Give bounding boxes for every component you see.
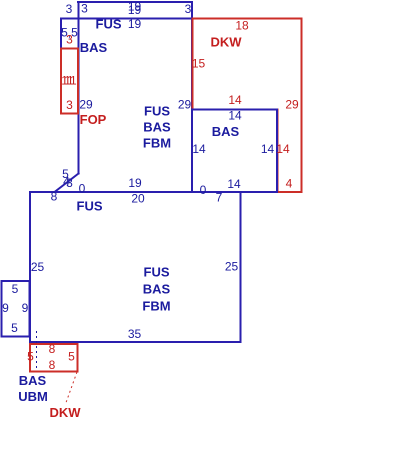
svg-text:18: 18 [235,19,249,33]
FOP porch red rectangle [61,49,78,114]
svg-text:20: 20 [131,192,145,206]
svg-text:BAS: BAS [80,40,108,55]
svg-text:5: 5 [68,350,75,364]
leader dashed blue vertical [36,331,38,370]
svg-text:FUS: FUS [144,265,170,280]
svg-text:14: 14 [192,142,206,156]
svg-text:8: 8 [51,190,58,204]
svg-text:FUS: FUS [144,103,170,118]
svg-text:0: 0 [200,183,207,197]
svg-text:19: 19 [128,17,142,31]
wire: main horizontal y=192 [30,191,277,193]
bump-out small rectangle left side [2,281,30,337]
svg-text:4: 4 [286,177,293,191]
svg-text:25: 25 [31,260,45,274]
wire: FUS main left vertical [78,2,80,174]
svg-text:0: 0 [79,182,86,196]
svg-text:3: 3 [185,2,192,16]
svg-text:3: 3 [66,2,73,16]
svg-text:DKW: DKW [210,34,242,49]
svg-text:FUS: FUS [77,198,103,213]
svg-text:14: 14 [261,142,275,156]
svg-text:19: 19 [128,3,142,17]
svg-text:14: 14 [227,177,241,191]
DKW lower red rectangle [30,344,78,372]
leader dashed red to DKW label [66,372,78,404]
svg-text:9: 9 [22,301,29,315]
svg-text:14: 14 [228,109,242,123]
svg-text:3: 3 [66,33,73,47]
svg-text:3: 3 [66,98,73,112]
wire: FUS strip top edge [78,1,192,3]
svg-text:19: 19 [128,176,142,190]
svg-text:FOP: FOP [80,112,107,127]
svg-text:3: 3 [66,176,73,190]
svg-text:5: 5 [12,282,19,296]
lower main rectangle left/bottom/right [30,192,241,342]
wire: left small rect bottom edge [61,48,79,50]
svg-text:3: 3 [81,2,88,16]
svg-text:BAS: BAS [212,124,240,139]
svg-text:BAS: BAS [143,120,171,135]
svg-text:29: 29 [285,98,299,112]
svg-text:29: 29 [178,98,192,112]
svg-text:5: 5 [11,321,18,335]
svg-text:BAS: BAS [143,282,171,297]
svg-text:9: 9 [2,301,9,315]
svg-text:UBM: UBM [18,389,48,404]
svg-text:8: 8 [49,358,56,372]
svg-text:11: 11 [64,74,77,88]
BAS upper-right blue rectangle top+right [192,110,277,193]
wire: left small rect left edge [60,19,62,49]
svg-text:14: 14 [276,142,290,156]
svg-text:BAS: BAS [19,373,47,388]
svg-text:7: 7 [216,191,223,205]
svg-text:DKW: DKW [49,405,81,420]
DKW upper red polygon outline [193,19,302,193]
svg-text:8: 8 [49,342,56,356]
svg-text:FUS: FUS [96,17,122,32]
svg-text:5: 5 [27,350,34,364]
svg-text:14: 14 [228,93,242,107]
svg-text:FBM: FBM [143,136,171,151]
wire: FUS diagonal corner [55,174,79,193]
svg-text:25: 25 [225,260,239,274]
svg-text:29: 29 [79,98,93,112]
svg-text:FBM: FBM [142,299,170,314]
svg-text:35: 35 [128,327,142,341]
svg-text:15: 15 [192,57,206,71]
wire: horizontal line y=18.5 strip bottom [61,18,192,20]
wire: FUS strip right edge [191,2,193,192]
